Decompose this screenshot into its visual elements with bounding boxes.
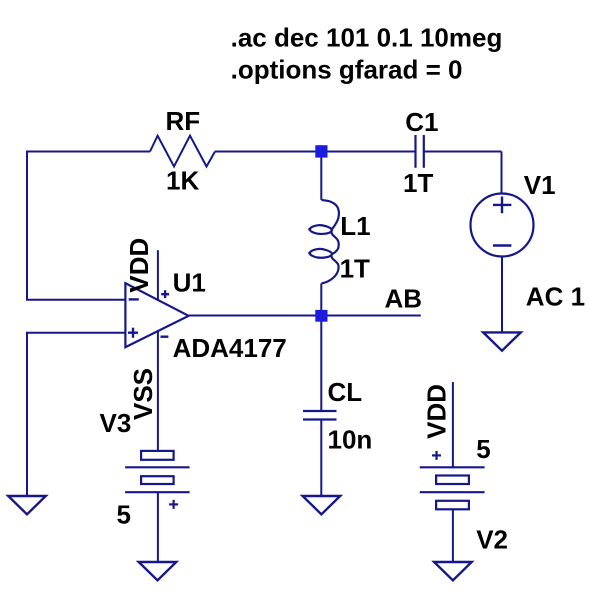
svg-text:V1: V1 [524,170,556,200]
svg-text:U1: U1 [173,267,206,297]
svg-text:CL: CL [328,377,363,407]
svg-text:.ac dec 101 0.1 10meg: .ac dec 101 0.1 10meg [231,23,503,53]
svg-text:.options gfarad = 0: .options gfarad = 0 [231,55,463,85]
svg-text:1K: 1K [166,166,199,196]
svg-text:ADA4177: ADA4177 [173,333,287,363]
svg-text:VDD: VDD [124,238,154,293]
svg-text:10n: 10n [328,425,373,455]
svg-text:V2: V2 [476,524,508,554]
svg-text:L1: L1 [340,211,370,241]
svg-text:5: 5 [117,499,131,529]
svg-text:C1: C1 [405,107,438,137]
svg-text:VSS: VSS [128,368,158,420]
svg-text:VDD: VDD [422,384,452,439]
svg-text:1T: 1T [340,254,370,284]
svg-text:5: 5 [476,434,490,464]
svg-text:AB: AB [385,283,423,313]
svg-text:1T: 1T [403,168,433,198]
svg-text:AC 1: AC 1 [526,281,585,311]
svg-text:V3: V3 [100,408,132,438]
svg-text:RF: RF [166,106,201,136]
